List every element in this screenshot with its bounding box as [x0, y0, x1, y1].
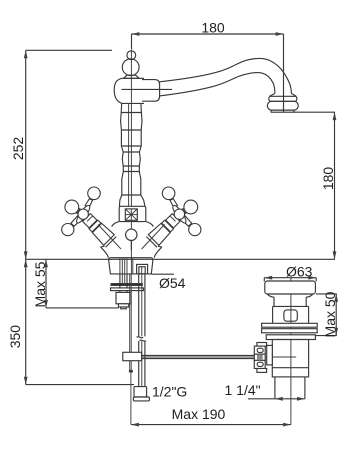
svg-text:Max 190: Max 190	[172, 406, 226, 422]
svg-text:252: 252	[10, 137, 26, 161]
svg-text:Max 50: Max 50	[322, 291, 338, 337]
svg-text:180: 180	[201, 19, 225, 35]
svg-text:350: 350	[7, 325, 23, 349]
svg-text:Ø54: Ø54	[159, 275, 186, 291]
svg-text:180: 180	[320, 167, 336, 191]
svg-text:Ø63: Ø63	[286, 263, 313, 279]
svg-text:1/2"G: 1/2"G	[152, 383, 187, 399]
svg-text:1 1/4": 1 1/4"	[225, 382, 261, 398]
svg-text:Max 55: Max 55	[32, 261, 48, 307]
